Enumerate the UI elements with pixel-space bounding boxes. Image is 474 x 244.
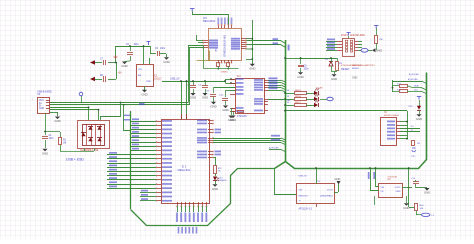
svg-text:PAD/SHIELD/ANTITILT: PAD/SHIELD/ANTITILT: [352, 64, 375, 67]
svg-text:GND: GND: [163, 60, 169, 64]
svg-text:VOUT: VOUT: [327, 190, 334, 192]
svg-text:GND: GND: [54, 119, 60, 123]
svg-text:MEGA-8U2: MEGA-8U2: [178, 169, 191, 172]
svg-text:RN1A: RN1A: [295, 95, 301, 98]
svg-text:GND: GND: [190, 96, 196, 100]
svg-text:GND: GND: [42, 151, 48, 155]
svg-text:USB_5V: USB_5V: [299, 175, 308, 177]
svg-text:100n: 100n: [134, 44, 140, 46]
svg-text:VIN: VIN: [138, 69, 142, 71]
svg-text:EN: EN: [138, 75, 141, 77]
svg-text:IC3: IC3: [203, 17, 207, 20]
svg-text:GND: GND: [396, 191, 401, 193]
svg-text:GND: GND: [222, 108, 228, 112]
svg-text:100n: 100n: [160, 48, 166, 50]
svg-text:D-: D-: [411, 130, 414, 132]
svg-text:+: +: [299, 199, 301, 203]
svg-text:RESET: RESET: [352, 68, 360, 70]
svg-text:GND: GND: [352, 77, 358, 80]
svg-text:100n: 100n: [49, 138, 55, 140]
svg-text:GND: GND: [403, 206, 409, 210]
svg-text:16MHz: 16MHz: [221, 72, 228, 74]
svg-text:GND: GND: [376, 49, 382, 53]
svg-text:GND: GND: [121, 64, 127, 68]
svg-text:AGND/RADJ: AGND/RADJ: [320, 195, 333, 198]
svg-text:1M: 1M: [63, 142, 66, 144]
svg-text:GND: GND: [416, 117, 422, 121]
svg-text:A_RXLED: A_RXLED: [408, 78, 418, 81]
svg-text:GND: GND: [212, 187, 218, 191]
svg-text:RN1B: RN1B: [295, 90, 301, 92]
svg-text:GND: GND: [210, 104, 216, 108]
svg-text:GND: GND: [39, 108, 44, 110]
svg-text:+5V: +5V: [118, 72, 123, 75]
svg-text:10K: 10K: [420, 208, 424, 210]
svg-text:USB-B-SMD2: USB-B-SMD2: [37, 91, 52, 94]
svg-text:TXLED: TXLED: [316, 88, 323, 90]
svg-text:GND: GND: [141, 92, 147, 96]
svg-text:XC6220B: XC6220B: [388, 177, 398, 179]
svg-text:SDA: SDA: [414, 85, 419, 88]
svg-text:GND: GND: [297, 75, 303, 79]
svg-text:GND: GND: [424, 191, 430, 195]
svg-text:GND: GND: [146, 81, 151, 83]
svg-text:GND: GND: [331, 77, 337, 81]
svg-text:VOUT: VOUT: [394, 187, 401, 189]
svg-text:VIN: VIN: [381, 187, 385, 189]
svg-text:ICSP1: ICSP1: [341, 34, 349, 37]
svg-text:CE: CE: [381, 191, 385, 193]
svg-text:VIN: VIN: [299, 190, 303, 192]
svg-text:GND: GND: [335, 177, 341, 181]
svg-text:10K: 10K: [379, 39, 383, 41]
svg-text:EN/UVLO: EN/UVLO: [299, 196, 309, 198]
svg-text:AU: AU: [215, 48, 218, 51]
svg-text:GND: GND: [202, 96, 208, 100]
svg-text:AVR-ISP-6MD: AVR-ISP-6MD: [350, 34, 365, 37]
svg-text:USB_5V: USB_5V: [170, 78, 180, 81]
svg-text:100n: 100n: [304, 68, 310, 70]
svg-text:MICRO-USB-B: MICRO-USB-B: [384, 115, 399, 117]
svg-text:MEGA16U2: MEGA16U2: [203, 20, 216, 23]
svg-text:AP2112K-3.3: AP2112K-3.3: [299, 207, 313, 210]
svg-text:RESET: RESET: [341, 67, 350, 71]
svg-text:GREEN: GREEN: [219, 180, 227, 182]
svg-text:USB + ESD: USB + ESD: [66, 158, 84, 162]
svg-text:GND: GND: [230, 118, 236, 122]
svg-text:ATMEGA16U2-MU: ATMEGA16U2-MU: [223, 35, 227, 57]
svg-text:LD1117: LD1117: [154, 78, 162, 80]
svg-text:A_RXLED: A_RXLED: [409, 73, 419, 76]
svg-text:RN1C: RN1C: [295, 102, 301, 104]
svg-text:A_RXLED: A_RXLED: [269, 146, 279, 149]
svg-text:FT231XS: FT231XS: [237, 116, 247, 118]
svg-text:GND: GND: [249, 66, 255, 70]
